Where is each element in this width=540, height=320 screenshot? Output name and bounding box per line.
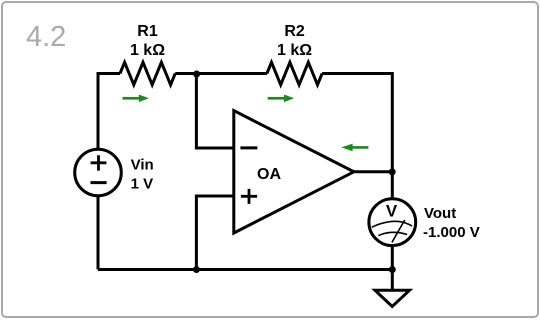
Vin minus sign [91, 181, 107, 184]
resistor R2 [267, 62, 322, 85]
current arrow through R2 (green, pointing right) [268, 95, 294, 103]
wire: bottom rail [98, 268, 392, 271]
ground symbol [375, 290, 410, 306]
op-amp non-inverting input marker (plus) [241, 189, 257, 204]
wire: inverting input branch (vertical from node A) [195, 74, 198, 149]
svg-text:1 kΩ: 1 kΩ [130, 42, 165, 59]
svg-text:Vout: Vout [424, 205, 456, 222]
current arrow near op-amp output (green, pointing left) [341, 144, 368, 152]
voltmeter Vout [369, 199, 416, 246]
svg-text:-1.000 V: -1.000 V [423, 224, 480, 241]
svg-text:4.2: 4.2 [26, 21, 66, 53]
wire: right vertical from top wire to voltmeter top [391, 72, 394, 199]
svg-text:R2: R2 [284, 23, 305, 40]
wire: ground stub [391, 270, 394, 291]
wire: segment between R1 and R2 [175, 72, 267, 75]
voltage source Vin [75, 149, 122, 196]
junction node bottom-left (non-inverting branch on bottom rail) [193, 266, 200, 273]
wire: non-inverting input horizontal from vertical branch [195, 195, 234, 198]
svg-text:Vin: Vin [131, 157, 154, 174]
wire: op-amp output to right vertical [354, 170, 392, 173]
svg-text:V: V [386, 202, 398, 221]
resistor R1 [120, 62, 175, 85]
svg-text:R1: R1 [137, 23, 158, 40]
wire: voltmeter bottom to bottom rail [391, 246, 394, 270]
junction node bottom-right (voltmeter/ground on bottom rail) [389, 266, 396, 273]
wire: top left segment from Vin branch to R1 [98, 72, 120, 75]
wire: non-inverting input vertical down to bottom rail [195, 196, 198, 270]
op-amp inverting input marker (minus) [240, 146, 257, 149]
wire: segment from R2 to right vertical [322, 72, 392, 75]
junction node output (op-amp output / right vertical) [389, 168, 396, 175]
wire: left vertical from top wire to Vin top [97, 72, 100, 150]
svg-text:1 V: 1 V [131, 176, 154, 193]
voltmeter scale arc inner [378, 232, 407, 235]
junction node A (top, R1/R2/inverting branch) [193, 71, 200, 78]
wire: inverting input horizontal into op-amp [195, 147, 234, 150]
svg-text:1 kΩ: 1 kΩ [277, 42, 312, 59]
op-amp OA [234, 111, 354, 233]
voltmeter scale arc outer [372, 221, 412, 227]
Vin plus sign [91, 155, 107, 170]
voltmeter needle [392, 220, 405, 243]
wire: left vertical from Vin bottom to bottom wire [97, 196, 100, 270]
current arrow through R1 (green, pointing right) [123, 95, 149, 103]
svg-text:OA: OA [257, 166, 281, 183]
